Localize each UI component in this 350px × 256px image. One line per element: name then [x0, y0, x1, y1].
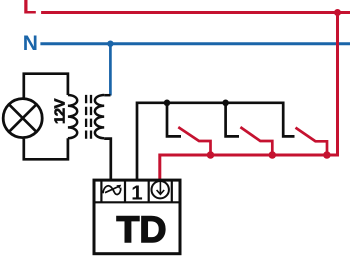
- node red rail junction S3: [323, 151, 331, 159]
- wire N drop to transformer: [109, 44, 112, 96]
- node rail junction S2: [222, 100, 229, 107]
- wire lamp to primary top: [24, 74, 68, 99]
- svg-text:L: L: [23, 0, 37, 19]
- svg-text:12V: 12V: [52, 99, 69, 124]
- lamp E1 circle: [3, 99, 42, 138]
- wire red return rail: [160, 13, 338, 182]
- timer TD terminal strip: [94, 180, 180, 202]
- switch S3 lever: [297, 128, 327, 155]
- wire switch rail with drop to TD: [137, 103, 295, 181]
- node red rail junction S2: [269, 151, 277, 159]
- node rail junction S1: [164, 100, 171, 107]
- svg-text:TD: TD: [117, 208, 167, 250]
- wire secondary to TD terminal 1: [104, 139, 111, 181]
- wire lamp to primary bottom: [24, 138, 68, 159]
- wire L rail: [41, 11, 350, 14]
- switch S2 lever: [242, 128, 273, 155]
- terminal symbol wave: [103, 186, 121, 195]
- lamp E1 cross: [9, 104, 37, 132]
- node N junction: [107, 41, 113, 47]
- transformer T1 primary coil: [68, 95, 77, 138]
- wire N rail: [40, 42, 350, 45]
- transformer T1 core: [86, 95, 91, 139]
- svg-text:N: N: [23, 32, 38, 55]
- node L junction: [334, 9, 341, 16]
- node red rail junction S1: [207, 151, 215, 159]
- switch S1 fixed contact: [167, 103, 181, 137]
- switch S2 fixed contact: [226, 103, 239, 137]
- terminal symbol circle arrow: [152, 181, 169, 198]
- svg-text:1: 1: [131, 181, 142, 204]
- wire secondary top lead: [104, 94, 110, 97]
- switch S1 lever: [179, 128, 210, 155]
- transformer T1 secondary coil: [95, 95, 104, 138]
- timer TD enclosure: [94, 180, 180, 254]
- terminal symbol wave arrow: [105, 186, 119, 192]
